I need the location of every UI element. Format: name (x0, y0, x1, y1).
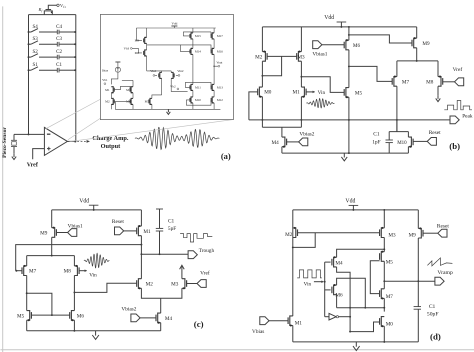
wire M8 drain (b) (437, 61, 439, 77)
junction (348, 26, 350, 28)
callout line (69, 120, 233, 142)
port Vref (b) (455, 78, 464, 86)
wire M7 source (c) (26, 276, 28, 311)
power Vdd (b) (337, 21, 347, 23)
port Vbias1 (c) (68, 229, 77, 237)
svg-text:Ibias: Ibias (102, 68, 109, 72)
svg-text:C3: C3 (56, 37, 62, 42)
svg-text:Vin: Vin (318, 90, 326, 96)
junction (340, 26, 342, 28)
wire (192, 28, 194, 33)
junction (292, 246, 294, 248)
transistor M5 (c) (27, 311, 30, 321)
svg-text:(c): (c) (194, 319, 204, 329)
wire M6 source (b) (348, 27, 350, 40)
wire (59, 69, 75, 71)
junction (300, 76, 302, 78)
svg-text:M5: M5 (355, 90, 363, 96)
wire M5 diode connect (c) (27, 293, 52, 315)
junction (73, 330, 75, 332)
junction (140, 244, 142, 246)
wire Vin gate bus (d) (324, 262, 326, 317)
wire (213, 90, 215, 97)
waveform Vin (b) (306, 98, 334, 108)
wire (73, 256, 75, 266)
transistor M9 (inset) (145, 37, 147, 43)
svg-text:M0: M0 (386, 321, 394, 327)
transistor M8 (inset) (145, 50, 147, 56)
waveform ramp (d) (427, 258, 452, 266)
wire M4 drain (d) (337, 267, 351, 332)
wire M6 drain to M7 gate (b) (349, 66, 393, 81)
svg-text:M7: M7 (29, 269, 37, 275)
svg-text:M8: M8 (64, 269, 72, 275)
transistor M15 (inset) (191, 33, 193, 39)
wire M2 drain to M0 (b) (261, 61, 263, 87)
svg-text:Vin: Vin (304, 282, 312, 288)
svg-text:M4: M4 (165, 316, 173, 322)
svg-text:C1: C1 (373, 132, 380, 138)
junction (383, 280, 385, 282)
transistor M4 (b) (282, 137, 285, 147)
switch S3 (29, 43, 32, 45)
svg-text:M3: M3 (171, 282, 179, 288)
port Vramp (d) (435, 277, 444, 285)
wire bus to M0 (d) (383, 308, 385, 312)
wire (132, 80, 134, 86)
wire Vb3 to M8 gate (132, 48, 142, 53)
junction (364, 307, 366, 309)
transistor M10 (inset) (191, 97, 193, 103)
transistor M9 (c) (52, 228, 55, 238)
ground (piezo) (13, 154, 15, 157)
wire bottom rail (c) (27, 330, 161, 332)
svg-text:M1: M1 (143, 229, 151, 235)
waveform Vin square (d) (297, 270, 322, 278)
wire M3 drain (b) (300, 61, 302, 87)
svg-text:Vref: Vref (27, 163, 39, 169)
transistor M0 (d) (381, 317, 384, 327)
wire M3 drain supply arrow (c) (181, 266, 183, 278)
svg-text:Vdd: Vdd (345, 199, 355, 205)
svg-text:Reset: Reset (437, 224, 449, 230)
svg-text:M7: M7 (402, 79, 410, 85)
wire top rail (d) (293, 209, 419, 211)
transistor M3 (d) (381, 228, 384, 238)
transistor M6 (inset) (160, 72, 162, 78)
wire Vin arrow (d) (314, 281, 322, 283)
waveform trough pulses (c) (180, 234, 212, 242)
svg-text:M2: M2 (255, 54, 263, 60)
svg-text:S1: S1 (32, 63, 38, 68)
terminal Vf1 (57, 4, 59, 6)
junction (28, 43, 30, 45)
junction (73, 291, 75, 293)
junction (383, 341, 385, 343)
transistor M1 (inset) (111, 87, 113, 93)
transistor M8 (b) (438, 77, 441, 87)
transistor M9 (d) (418, 228, 421, 238)
wire (151, 104, 153, 109)
junction (348, 152, 350, 154)
junction (74, 31, 76, 33)
svg-text:M5: M5 (17, 313, 25, 319)
ground (b) (343, 153, 345, 157)
wire inset bottom rail (115, 102, 220, 109)
transistor M5 (b) (346, 88, 349, 98)
svg-text:C4: C4 (56, 25, 62, 30)
junction feedback to M7 gate (15, 270, 17, 272)
capacitor C4 (56, 30, 58, 35)
junction (383, 307, 385, 309)
svg-text:M10: M10 (397, 141, 407, 146)
transistor M2 (d) (293, 228, 296, 238)
wire M8 source (b) (437, 86, 439, 95)
svg-text:(d): (d) (430, 331, 441, 341)
svg-text:Output: Output (101, 143, 122, 150)
svg-text:Vin2: Vin2 (177, 69, 184, 73)
wire M9 drain to C1 (d) (417, 238, 419, 307)
wire (39, 31, 57, 33)
transistor M0 (b) (259, 87, 262, 97)
wire (192, 54, 194, 84)
port Peak (b) (450, 116, 459, 124)
wire M9 gate to Reset (d) (423, 232, 438, 234)
svg-text:M9: M9 (422, 41, 430, 47)
wire M1 gate (d) (269, 320, 288, 322)
svg-text:1pF: 1pF (372, 140, 380, 146)
transistor M7 (b) (394, 77, 397, 87)
callout line (68, 118, 101, 139)
svg-text:Vb3: Vb3 (124, 47, 130, 51)
wire (213, 54, 215, 84)
capacitor C2 (56, 55, 58, 60)
wire op-amp output (67, 140, 75, 142)
svg-text:M2: M2 (105, 100, 110, 104)
wire M0 gate (d) (350, 322, 380, 332)
wire M1 rail drop (c) (140, 210, 142, 226)
wire (39, 43, 57, 45)
wire M4 gate stub (d) (325, 261, 331, 263)
transistor M6 (c) (71, 311, 74, 321)
wire (152, 95, 162, 99)
wire M9 drain (c) (51, 237, 53, 255)
wire M1 gate (b) (306, 91, 313, 93)
junction (140, 253, 142, 255)
callout line (46, 99, 100, 128)
wire bottom rail (d) (293, 341, 419, 343)
wire M3 source (b) (300, 27, 302, 52)
wire bottom rail (b) (282, 152, 409, 154)
port Reset (b) (427, 138, 436, 146)
terminal Vb3 (inset) (130, 48, 132, 50)
wire M9 source (c) (51, 210, 53, 228)
wire inset top rail (136, 27, 215, 29)
svg-text:M5: M5 (145, 100, 150, 104)
svg-text:Vref: Vref (453, 66, 463, 73)
svg-text:S2: S2 (32, 50, 38, 55)
wire feedback top rail (29, 14, 76, 16)
port Vref (c) (197, 280, 206, 288)
wire left feedback rail (28, 15, 30, 135)
transistor M1 (b) (301, 87, 304, 97)
wire feedback line (c) (16, 245, 142, 271)
wire (59, 43, 75, 45)
wire gate bus M5-M6 (c) (31, 314, 69, 316)
wire M7-M8 drain bus (b) (397, 60, 438, 62)
wire M9 drain (b) (416, 48, 418, 61)
svg-text:(b): (b) (449, 141, 460, 151)
svg-text:C2: C2 (56, 50, 62, 55)
wire Rf gate to Vf1 (48, 5, 57, 9)
port Vbias1 (b) (313, 41, 322, 49)
wire M10 gate to Reset (b) (413, 140, 427, 142)
wire (110, 93, 112, 99)
transistor M1 (c) (138, 226, 141, 236)
svg-text:M16: M16 (217, 50, 223, 54)
junction (26, 292, 28, 294)
port Vbias2 (c) (131, 314, 140, 322)
transistor M17 (inset) (212, 33, 214, 39)
transistor M1 (d) (290, 316, 293, 326)
svg-text:M2: M2 (285, 232, 293, 238)
wire (146, 43, 148, 50)
svg-text:M5: M5 (386, 259, 394, 265)
wire M6 source (c) (73, 320, 75, 331)
transistor M3 (c) (182, 279, 185, 289)
wire M9 gate diode (136, 28, 142, 40)
junction (349, 307, 351, 309)
wire Vramp line (d) (384, 280, 434, 282)
junction (51, 255, 53, 257)
transistor M2 (inset) (111, 98, 113, 104)
transistor M7 (inset) (171, 72, 173, 78)
svg-text:M1: M1 (292, 90, 300, 96)
wire M10 drain (b) (407, 132, 409, 138)
wire M0 gate loop (b) (249, 92, 258, 120)
wire (213, 103, 215, 109)
transistor M7 (c) (24, 266, 27, 276)
transistor M6 (b) (346, 40, 349, 50)
wire output line (c) (141, 253, 189, 255)
junction (28, 31, 30, 33)
wire (39, 69, 57, 71)
svg-text:Vbias2: Vbias2 (299, 132, 314, 138)
wire (59, 31, 75, 33)
junction (261, 119, 263, 121)
junction (74, 56, 76, 58)
waveform charge amp output (135, 127, 220, 149)
svg-text:M6: M6 (353, 43, 361, 49)
wire M0 source (d) (383, 326, 385, 342)
svg-text:M8: M8 (426, 79, 434, 85)
wire M6 gate stub (d) (325, 289, 331, 291)
svg-text:M1: M1 (105, 88, 110, 92)
wire Ibias bottom (111, 73, 118, 85)
svg-text:M9: M9 (409, 232, 417, 238)
wire M3 source (d) (383, 210, 385, 228)
wire gate bus M2-M3 (b) (267, 55, 297, 57)
transistor M4 (d) (334, 257, 337, 267)
wire Vbias1 to M6 gate (b) (322, 44, 344, 46)
svg-text:M17: M17 (217, 34, 223, 38)
svg-text:Piezo-Sensor: Piezo-Sensor (2, 127, 8, 158)
svg-text:M4: M4 (271, 140, 279, 146)
wire M8 gate to Vref (b) (443, 81, 455, 83)
capacitor C1 (b) (388, 132, 390, 140)
wire gate bus M10-M12 (186, 100, 211, 105)
svg-text:M1: M1 (295, 321, 303, 327)
junction (28, 56, 30, 58)
wire M6 drain riser (d) (337, 278, 366, 308)
svg-text:Vb1: Vb1 (102, 78, 108, 82)
junction (28, 133, 30, 135)
wire top rail (b) (262, 26, 416, 28)
wire M7 source (d) (383, 298, 385, 307)
svg-text:S3: S3 (32, 37, 38, 42)
junction output node (74, 140, 76, 142)
wire M7 gate (c) (16, 270, 22, 272)
wire M2-M3 source merge (c) (141, 288, 182, 298)
svg-text:M9: M9 (40, 231, 48, 237)
junction (349, 331, 351, 333)
svg-text:Trough: Trough (199, 248, 215, 254)
ground (d) (355, 342, 357, 347)
junction (51, 314, 53, 316)
wire gate bus M1-M3 (114, 86, 130, 89)
svg-text:Reset: Reset (429, 130, 441, 136)
transistor Rf (feedback PMOS) (44, 11, 52, 15)
svg-text:Vbias2: Vbias2 (121, 307, 136, 313)
wire M2 diode connect (d) (293, 233, 315, 248)
wire (192, 90, 194, 97)
svg-text:Vbias1: Vbias1 (312, 52, 327, 58)
junction (349, 316, 351, 318)
wire gate bus M14-M16 (180, 45, 211, 52)
transistor M16 (inset) (212, 48, 214, 54)
inset box (op-amp detail) (100, 14, 233, 119)
svg-text:M7: M7 (386, 294, 394, 300)
wire M7 drain (b) (396, 61, 398, 77)
wire tail bus (147, 70, 172, 72)
svg-text:Reset: Reset (112, 219, 124, 225)
port Vbias2 (b) (299, 138, 308, 146)
transistor M2 (c) (138, 279, 141, 289)
wire M4 gate (c) (140, 317, 156, 319)
svg-text:Vin1: Vin1 (150, 69, 157, 73)
svg-text:Vbias: Vbias (252, 329, 264, 335)
wire M4 source (c) (160, 323, 162, 331)
junction (300, 119, 302, 121)
wire gate bus M2-M3 (d) (298, 232, 380, 234)
wire (132, 104, 134, 109)
wire dashed output arrow (77, 140, 86, 142)
wire M2 source (b) (261, 27, 263, 52)
wire M1 gate (c) (124, 230, 137, 232)
ground (c) (95, 331, 97, 336)
wire M10 source (b) (407, 147, 409, 153)
transistor M4 (inset) (131, 98, 133, 104)
junction (261, 75, 263, 77)
wire tail bus (c) (27, 255, 75, 257)
svg-text:M12: M12 (217, 98, 223, 102)
switch S4 (29, 31, 32, 33)
svg-text:Vdd: Vdd (171, 22, 177, 26)
svg-text:M11: M11 (195, 86, 201, 90)
wire M8 source (c) (73, 276, 75, 311)
svg-text:Vbias1: Vbias1 (68, 224, 83, 230)
wire M9 source (b) (416, 27, 418, 38)
waveform Vin (c) (84, 253, 110, 268)
junction (416, 60, 418, 62)
wire (192, 39, 194, 49)
transistor M8 (c) (74, 266, 77, 276)
wire (213, 39, 215, 49)
wire top rail (c) (52, 209, 142, 211)
wire M6 drain (b) (348, 50, 350, 88)
svg-text:M13: M13 (217, 86, 223, 90)
svg-text:M6: M6 (77, 313, 85, 319)
wire (39, 56, 57, 58)
wire M5 drain (d) (383, 261, 385, 289)
switch S2 (29, 56, 32, 58)
power Vdd (d) (349, 204, 359, 206)
svg-text:(a): (a) (221, 151, 231, 161)
transistor M3 (b) (298, 52, 301, 62)
transistor M7 (d) (381, 289, 384, 299)
transistor M10 (b) (408, 137, 411, 147)
wire M4 gate (b) (287, 141, 299, 143)
inverter (d) (329, 313, 336, 320)
junction (383, 248, 385, 250)
wire (26, 256, 28, 266)
wire M3 drain to M5 gate (b) (301, 77, 344, 93)
wire M0 source (b) (261, 97, 263, 120)
wire (213, 28, 215, 33)
junction (74, 43, 76, 45)
power Vdd (inset) (171, 25, 177, 27)
wire cascode mid (147, 44, 181, 46)
svg-text:Vf1: Vf1 (60, 3, 66, 9)
ground (M8 source) (437, 95, 439, 99)
wire left rail (d) (292, 210, 294, 316)
wire (146, 28, 148, 37)
svg-text:Vb2: Vb2 (170, 84, 176, 88)
svg-text:M3: M3 (297, 54, 305, 60)
svg-text:Vout: Vout (216, 60, 222, 64)
junction (348, 65, 350, 67)
svg-text:Peak: Peak (462, 113, 473, 119)
wire M7 drain (171, 78, 187, 91)
svg-text:M2: M2 (146, 282, 154, 288)
junction (159, 253, 161, 255)
svg-text:Vin: Vin (89, 273, 97, 279)
svg-text:M4: M4 (126, 100, 131, 104)
wire M5 source (b) (348, 97, 350, 153)
capacitor C1 (56, 68, 58, 73)
piezo sensor element (11, 139, 17, 141)
junction (93, 209, 95, 211)
svg-text:C1: C1 (168, 219, 175, 225)
wire M5 source (c) (26, 320, 28, 331)
wire first stage out to M2 gate (c) (74, 283, 136, 292)
wire inverting input (14, 133, 44, 135)
wire M9 source (d) (417, 210, 419, 229)
svg-text:S4: S4 (32, 25, 38, 30)
wire M3 gate to Vref (c) (187, 283, 197, 285)
capacitor C1 (d) (414, 306, 421, 308)
svg-text:Vdd: Vdd (324, 15, 334, 21)
